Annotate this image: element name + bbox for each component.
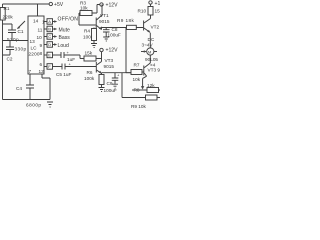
label DC 3~4V [142,37,155,48]
svg-text:D: D [48,42,51,47]
svg-text:330p: 330p [15,47,27,52]
svg-text:100uF: 100uF [104,88,117,93]
wire +12V to R3 node [92,5,100,14]
capacitor C6 [61,50,80,62]
svg-text:220k: 220k [3,15,14,20]
wire output A with arrow OFF/ON [44,17,78,25]
svg-text:14: 14 [33,19,39,24]
resistor R4 100k [83,28,97,44]
wire top rail [3,3,50,5]
svg-text:VT3 9: VT3 9 [148,68,161,73]
svg-text:C: C [48,34,51,39]
wire VT1 emitter row [102,28,120,30]
transistor VT2 [144,19,164,33]
wire VT2 emitter down [149,33,151,48]
wire meter to VT3 collector [149,55,151,63]
capacitor C2 [3,41,27,62]
svg-text:Loud: Loud [58,43,69,49]
resistor R10 [138,4,161,18]
svg-text:DC: DC [148,37,155,42]
svg-text:12: 12 [39,69,45,74]
wire +12V to VT4 collector [97,52,102,65]
resistor R1 [0,6,13,20]
svg-text:C9: C9 [107,81,113,86]
svg-text:VT1: VT1 [100,13,109,18]
capacitor C1 [7,29,24,42]
wire VT3 emitter arrow down [141,78,144,89]
svg-text:LC: LC [31,46,38,51]
wire stub to C1 [3,24,13,30]
svg-text:VT2 9: VT2 9 [151,25,161,30]
resistor R3 10k [79,1,96,26]
svg-text:R9 10k: R9 10k [131,104,147,109]
svg-text:R9 18k: R9 18k [117,18,135,23]
wire output F row [44,64,62,69]
svg-text:E: E [48,53,51,58]
svg-text:R1: R1 [4,6,10,11]
capacitor C5 1uF [56,62,96,78]
resistor R5 15k [80,51,102,62]
ground at bottom rail [47,102,53,107]
transistor VT1 9015 [96,5,110,30]
svg-text:C1: C1 [18,29,24,34]
svg-text:R7: R7 [134,63,140,68]
ground below C8 [103,37,109,41]
svg-text:6800p: 6800p [26,103,42,108]
svg-text:100uF: 100uF [108,33,121,38]
svg-text:11: 11 [38,28,43,33]
svg-text:+12V: +12V [106,3,119,9]
svg-text:A: A [48,19,51,24]
svg-text:10: 10 [37,35,43,40]
ground below C9 [112,84,118,88]
svg-text:10k: 10k [80,6,88,11]
resistor R9 18k [117,18,143,73]
wire output C with arrow Bass [44,34,70,41]
resistor R8 12k [132,83,160,93]
resistor R9b 10k bottom [131,95,160,109]
wire +5V drop to IC pin 14 [37,4,39,16]
svg-text:+12V: +12V [106,48,119,54]
wire bottom rail [3,99,51,101]
svg-text:C4: C4 [16,86,22,91]
svg-text:R10: R10 [138,9,147,14]
svg-text:M: M [148,49,151,54]
resistor R11 10k base resistor [131,63,144,83]
op-amp U1 IC LC2200 [28,16,45,74]
svg-text:13: 13 [30,39,36,44]
node +12V terminal top [100,3,118,9]
transistor VT3 bottom right [143,63,161,78]
svg-text:Mute: Mute [59,28,70,34]
svg-text:6: 6 [40,62,43,67]
wire output B with arrow Mute [44,26,70,33]
svg-text:C5 1uF: C5 1uF [56,72,72,77]
svg-text:90L05: 90L05 [145,57,158,62]
svg-text:2200: 2200 [29,52,40,57]
svg-text:Bass: Bass [59,35,71,41]
label 90L05 x4 [145,57,158,68]
capacitor C8 100uF [100,25,121,38]
svg-text:C2: C2 [7,57,13,62]
svg-text:8: 8 [40,51,43,56]
resistor R6 [84,70,104,87]
svg-text:B: B [48,27,51,32]
svg-text:1: 1 [42,20,45,25]
svg-text:R6: R6 [87,70,93,75]
wire left rail [2,4,4,100]
svg-text:15: 15 [155,9,161,14]
svg-text:100k: 100k [84,76,95,81]
wire VT4 emitter row [102,72,132,74]
svg-text:10k: 10k [133,77,141,82]
svg-text:9015: 9015 [99,19,110,24]
wire output E row [44,52,61,58]
transistor VT4 mid 9015 [96,58,114,74]
svg-text:VT3: VT3 [105,58,114,63]
node +12V terminal top right [149,1,161,7]
svg-text:+1: +1 [155,1,161,7]
ground below R6 [99,88,105,92]
wire IC pin12 to ground [42,74,50,100]
arrow trimmer indicator on C1 [18,21,26,29]
node +12V terminal middle [100,48,118,54]
meter M annotation [141,48,157,55]
svg-text:7: 7 [29,69,32,74]
svg-text:15k: 15k [85,51,93,56]
wire pin13 lead [3,40,29,42]
svg-text:OFF/ON: OFF/ON [58,17,79,23]
wire emitter row drop to bottom row [122,73,146,98]
node +5V terminal [49,2,64,8]
capacitor C9 100uF [104,73,121,94]
svg-text:9: 9 [40,43,43,48]
svg-text:C8: C8 [112,27,118,32]
svg-text:9015: 9015 [104,64,115,69]
svg-text:3~4V: 3~4V [142,43,154,48]
capacitor C4 [16,74,42,108]
svg-text:530p: 530p [7,37,19,42]
svg-text:R4: R4 [84,29,90,34]
svg-text:+5V: +5V [54,2,64,8]
wire output D with arrow Loud [44,42,69,49]
ground below R4 [91,44,97,48]
